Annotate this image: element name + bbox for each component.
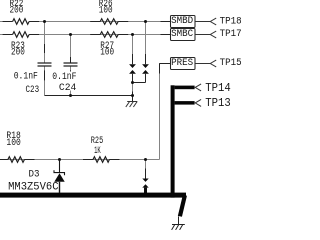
svg-text:100: 100 (6, 137, 20, 148)
svg-text:1K: 1K (94, 145, 101, 156)
svg-text:100: 100 (100, 47, 114, 58)
svg-text:TP15: TP15 (220, 57, 242, 68)
svg-text:SMBC: SMBC (171, 28, 193, 39)
svg-text:TP13: TP13 (205, 97, 230, 110)
svg-text:200: 200 (10, 5, 24, 16)
svg-text:MM3Z5V6C: MM3Z5V6C (8, 182, 59, 194)
svg-text:200: 200 (11, 47, 25, 58)
svg-text:C23: C23 (26, 84, 40, 95)
svg-text:0.1nF: 0.1nF (52, 71, 76, 82)
svg-text:D3: D3 (29, 169, 40, 180)
svg-text:SMBD: SMBD (171, 15, 193, 26)
svg-text:100: 100 (99, 5, 113, 16)
svg-text:TP18: TP18 (220, 15, 242, 26)
svg-text:0.1nF: 0.1nF (14, 70, 38, 81)
svg-text:C24: C24 (59, 82, 76, 93)
svg-text:TP17: TP17 (220, 28, 242, 39)
svg-text:PRES: PRES (171, 57, 193, 68)
svg-text:TP14: TP14 (205, 82, 230, 95)
